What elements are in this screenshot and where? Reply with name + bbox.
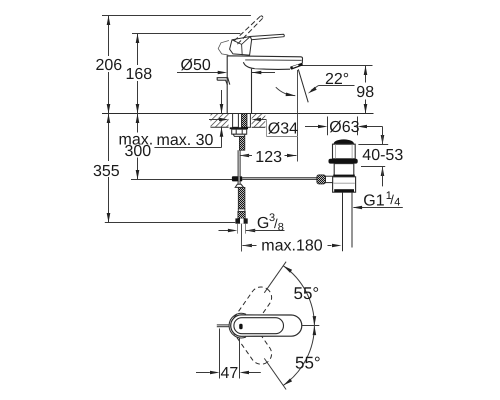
svg-text:355: 355 — [93, 163, 120, 180]
svg-text:40-53: 40-53 — [362, 147, 403, 164]
svg-text:Ø34: Ø34 — [268, 121, 298, 138]
svg-text:98: 98 — [356, 84, 374, 101]
svg-text:max. 30: max. 30 — [157, 132, 214, 149]
svg-text:Ø50: Ø50 — [181, 57, 211, 74]
svg-text:168: 168 — [126, 66, 153, 83]
svg-text:G1: G1 — [363, 193, 384, 210]
svg-text:300: 300 — [125, 143, 152, 160]
svg-text:123: 123 — [255, 149, 282, 166]
svg-text:4: 4 — [394, 197, 400, 209]
svg-text:max.180: max.180 — [261, 237, 322, 254]
svg-text:47: 47 — [221, 365, 239, 382]
svg-text:G: G — [257, 215, 269, 232]
svg-text:55°: 55° — [294, 284, 320, 303]
svg-text:8: 8 — [278, 221, 284, 233]
svg-text:Ø63: Ø63 — [329, 119, 359, 136]
svg-text:55°: 55° — [295, 354, 321, 373]
svg-text:206: 206 — [96, 57, 123, 74]
